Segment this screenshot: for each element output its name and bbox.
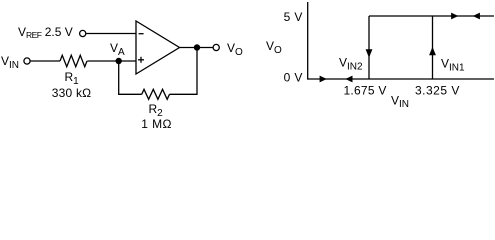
resistor R2 — [142, 89, 170, 99]
wire VIN to R1 — [30, 60, 60, 62]
op-amp minus sign — [139, 33, 144, 35]
wire VREF to op-amp minus input — [86, 33, 136, 35]
op-amp U1 — [136, 21, 180, 74]
wire feedback from R2 right and up to output node — [170, 48, 198, 95]
op-amp plus sign — [138, 59, 144, 61]
arrow down on left vertical — [366, 49, 373, 58]
arrow right on 0V line — [320, 76, 327, 83]
wire R1 to op-amp plus input — [87, 60, 136, 62]
terminal VO — [213, 44, 219, 50]
hysteresis right vertical at 3.325 — [432, 16, 434, 79]
hysteresis top 5V line — [369, 15, 494, 17]
terminal VIN — [24, 58, 30, 64]
axis VIN (x-axis, 0V line) — [308, 78, 494, 80]
terminal VREF — [80, 30, 86, 36]
wire op-amp output to VO terminal — [180, 47, 214, 49]
arrow left on 5V line — [473, 13, 480, 20]
resistor R1 — [60, 55, 87, 66]
node output junction dot — [194, 44, 200, 50]
svg-text:3.325 V: 3.325 V — [415, 84, 460, 98]
svg-text:1.675 V: 1.675 V — [344, 84, 387, 98]
node VA junction dot — [116, 58, 122, 64]
svg-text:5 V: 5 V — [284, 10, 303, 24]
arrow right on 5V line — [451, 13, 458, 20]
svg-text:1 MΩ: 1 MΩ — [141, 117, 172, 131]
svg-text:330 kΩ: 330 kΩ — [52, 86, 92, 100]
hysteresis left vertical at 1.675 — [368, 16, 370, 79]
arrow up on right vertical — [429, 47, 436, 56]
arrow left on 0V line — [345, 76, 352, 83]
axis VO (y-axis) — [307, 2, 309, 80]
svg-text:0 V: 0 V — [284, 71, 303, 85]
wire feedback from node VA down and right to R2 — [119, 61, 142, 94]
